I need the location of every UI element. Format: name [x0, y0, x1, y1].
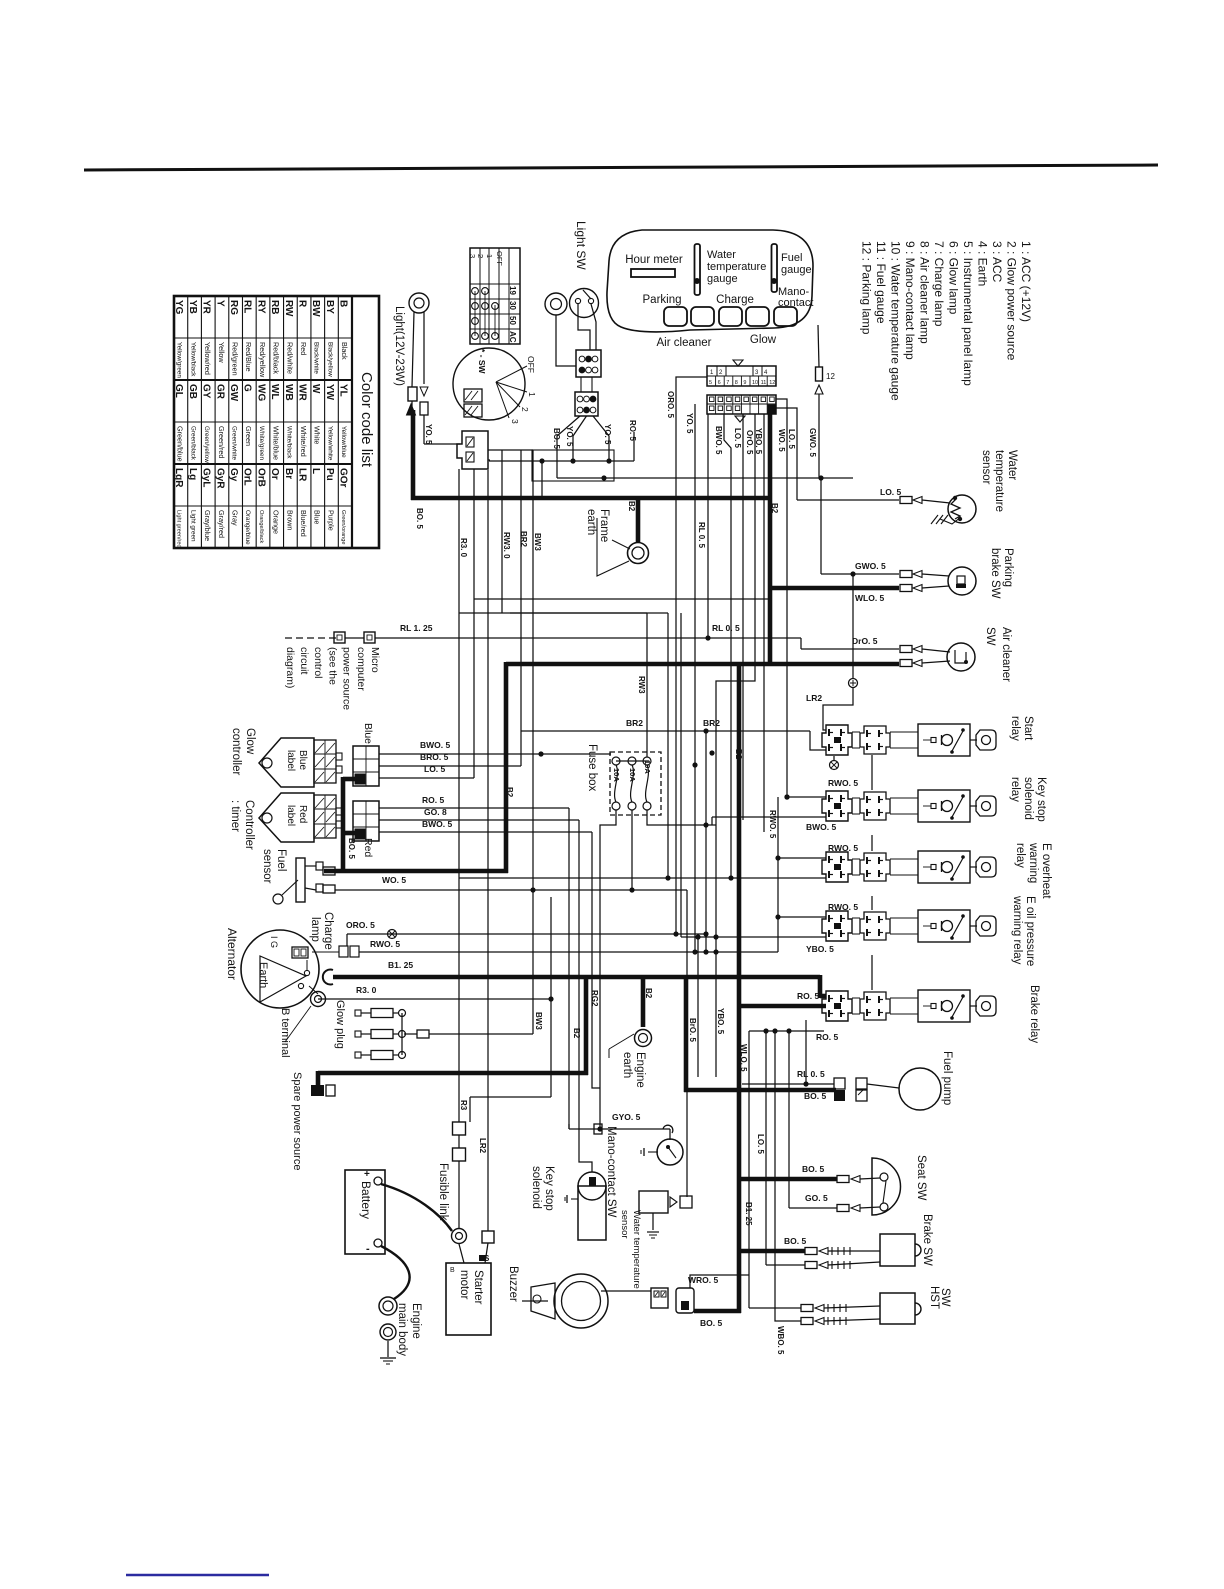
svg-text:White/green: White/green — [258, 426, 265, 460]
svg-text:I G: I G — [269, 936, 279, 948]
svg-text:2 : Glow power source: 2 : Glow power source — [1005, 241, 1019, 361]
svg-text:BWO. 5: BWO. 5 — [420, 740, 450, 750]
svg-text:motor: motor — [458, 1270, 470, 1300]
svg-text:GL: GL — [173, 384, 184, 398]
svg-text:Frame: Frame — [598, 509, 610, 542]
svg-text:Br: Br — [283, 468, 294, 479]
svg-text:R3. 0: R3. 0 — [459, 538, 468, 558]
svg-text:gauge: gauge — [781, 264, 812, 276]
svg-text:Light SW: Light SW — [574, 221, 588, 270]
svg-text:10: 10 — [752, 380, 758, 386]
svg-text:R3: R3 — [459, 1100, 468, 1111]
svg-text:GY: GY — [201, 384, 212, 399]
svg-text:YBO. 5: YBO. 5 — [806, 944, 834, 954]
svg-text:G: G — [242, 384, 253, 392]
svg-text:OrO. 5: OrO. 5 — [745, 430, 754, 455]
svg-text:Yellow/black: Yellow/black — [189, 342, 196, 377]
svg-text:RWO. 5: RWO. 5 — [828, 843, 858, 853]
svg-text:Seat SW: Seat SW — [915, 1155, 927, 1201]
svg-text:SW: SW — [984, 627, 996, 646]
svg-text:BWO. 5: BWO. 5 — [422, 819, 452, 829]
svg-text:AC: AC — [508, 331, 517, 343]
svg-text:E oil pressure: E oil pressure — [1024, 896, 1036, 966]
svg-text:WO. 5: WO. 5 — [777, 429, 786, 452]
svg-text:Orange: Orange — [272, 510, 281, 534]
svg-text:OrL: OrL — [242, 468, 253, 486]
svg-text:RWO. 5: RWO. 5 — [828, 902, 858, 912]
svg-text:relay: relay — [1009, 777, 1021, 802]
svg-text:GWO. 5: GWO. 5 — [855, 561, 886, 571]
svg-text:Engine: Engine — [634, 1052, 646, 1088]
svg-text:WLO. 5: WLO. 5 — [739, 1044, 748, 1072]
svg-text:BWO. 5: BWO. 5 — [714, 426, 723, 455]
svg-text:solenoid: solenoid — [530, 1166, 542, 1209]
svg-text:RWO. 5: RWO. 5 — [828, 778, 858, 788]
svg-text:Brake SW: Brake SW — [921, 1214, 933, 1266]
svg-text:sensor: sensor — [619, 1210, 630, 1239]
svg-text:controller: controller — [230, 728, 242, 775]
svg-text:LR2: LR2 — [806, 693, 822, 703]
svg-text:Blue: Blue — [362, 723, 374, 744]
svg-text:RO. 5: RO. 5 — [816, 1032, 838, 1042]
svg-text:Red/black: Red/black — [272, 342, 281, 374]
svg-text:BO. 5: BO. 5 — [804, 1091, 826, 1101]
svg-text:power source: power source — [341, 647, 353, 710]
svg-text:Battery: Battery — [359, 1181, 373, 1219]
svg-text:B: B — [338, 300, 349, 307]
svg-text:BO. 5: BO. 5 — [700, 1318, 722, 1328]
svg-text:10A: 10A — [628, 768, 637, 782]
svg-text:3: 3 — [510, 419, 520, 424]
svg-text:Color code list: Color code list — [358, 372, 375, 468]
svg-text:WG: WG — [255, 384, 266, 401]
svg-text:Mano-contact SW: Mano-contact SW — [605, 1126, 617, 1218]
svg-text:19: 19 — [508, 286, 517, 295]
svg-text:RL 0. 5: RL 0. 5 — [712, 623, 740, 633]
svg-text:2: 2 — [520, 407, 530, 412]
svg-text:9 : Mano-contact lamp: 9 : Mano-contact lamp — [903, 241, 917, 360]
svg-text:BRO. 5: BRO. 5 — [420, 752, 449, 762]
svg-text:Parking: Parking — [1002, 548, 1014, 587]
svg-text:Charge: Charge — [716, 294, 754, 306]
svg-text:OFF: OFF — [495, 251, 504, 266]
svg-text:gauge: gauge — [707, 273, 738, 285]
svg-text:WR: WR — [296, 384, 307, 401]
svg-text:8 : Air cleaner lamp: 8 : Air cleaner lamp — [918, 241, 932, 344]
svg-text:Or: Or — [269, 468, 280, 480]
svg-text:9: 9 — [743, 380, 746, 386]
svg-text:BO. 5: BO. 5 — [415, 508, 424, 529]
svg-text:12: 12 — [826, 372, 835, 381]
svg-text:Spare power source: Spare power source — [291, 1072, 303, 1170]
svg-text:RW3. 0: RW3. 0 — [502, 532, 511, 559]
svg-text:Lg: Lg — [187, 468, 198, 480]
svg-text:10A: 10A — [612, 768, 621, 782]
svg-text:SW: SW — [939, 1288, 951, 1307]
svg-text:Blue: Blue — [297, 750, 308, 770]
svg-text:GYO. 5: GYO. 5 — [612, 1112, 641, 1122]
svg-text:Water: Water — [1006, 450, 1018, 480]
svg-text:RO. 5: RO. 5 — [797, 991, 819, 1001]
svg-text:label: label — [285, 750, 296, 771]
svg-text:WLO. 5: WLO. 5 — [855, 593, 885, 603]
svg-text:GB: GB — [187, 384, 198, 399]
svg-text:12 : Parking lamp: 12 : Parking lamp — [860, 241, 874, 335]
svg-text:sensor: sensor — [980, 450, 992, 485]
svg-text:circuit: circuit — [298, 647, 310, 675]
svg-text:Glow: Glow — [750, 334, 777, 346]
svg-text:warning: warning — [1027, 842, 1039, 883]
svg-text:1: 1 — [527, 392, 537, 397]
svg-text:10A: 10A — [643, 760, 652, 774]
svg-text:Blue/red: Blue/red — [299, 510, 308, 537]
svg-text:Air cleaner: Air cleaner — [1000, 627, 1012, 682]
svg-text:White/blue: White/blue — [272, 426, 281, 460]
svg-text:B2: B2 — [572, 1028, 581, 1039]
svg-text:WRO. 5: WRO. 5 — [688, 1275, 718, 1285]
svg-text:4 : Earth: 4 : Earth — [976, 241, 990, 286]
svg-text:RW3: RW3 — [637, 676, 646, 694]
svg-text:control: control — [312, 647, 324, 679]
svg-text:* - SW: * - SW — [477, 349, 487, 375]
svg-text:(see the: (see the — [326, 647, 338, 685]
svg-text:BY: BY — [324, 300, 335, 314]
svg-text:1: 1 — [485, 254, 494, 258]
svg-text:RL 0. 5: RL 0. 5 — [797, 1069, 825, 1079]
svg-text:RWO. 5: RWO. 5 — [370, 939, 400, 949]
svg-text:GWO. 5: GWO. 5 — [808, 428, 817, 457]
svg-text:Orange/black: Orange/black — [258, 510, 264, 543]
svg-text:Light green/red: Light green/red — [176, 510, 182, 548]
svg-text:LR: LR — [296, 468, 307, 482]
svg-text:Glow plug: Glow plug — [334, 1000, 346, 1049]
svg-text:sensor: sensor — [261, 849, 273, 884]
svg-text:Water: Water — [707, 249, 736, 261]
svg-text:: timer: : timer — [229, 800, 241, 832]
svg-text:Light green: Light green — [189, 510, 196, 542]
svg-text:Controller: Controller — [243, 800, 255, 850]
svg-text:Green: Green — [244, 426, 253, 446]
svg-text:BR2: BR2 — [519, 531, 528, 548]
svg-text:B2: B2 — [505, 787, 514, 798]
svg-text:RG2: RG2 — [590, 990, 599, 1007]
svg-text:Water temperature: Water temperature — [631, 1210, 642, 1289]
svg-text:B: B — [450, 1267, 455, 1274]
svg-text:50: 50 — [508, 316, 517, 325]
svg-text:LR2: LR2 — [478, 1138, 487, 1154]
svg-text:Yellow/blue: Yellow/blue — [340, 426, 347, 458]
svg-text:GyL: GyL — [201, 468, 212, 487]
svg-text:BrO. 5: BrO. 5 — [688, 1018, 697, 1043]
svg-text:WO. 5: WO. 5 — [382, 875, 406, 885]
svg-text:B2: B2 — [627, 501, 636, 512]
svg-text:RO. 5: RO. 5 — [628, 420, 637, 441]
svg-text:Charge: Charge — [322, 912, 334, 950]
svg-text:LO. 5: LO. 5 — [880, 487, 902, 497]
svg-text:Start: Start — [1022, 716, 1034, 741]
svg-text:YO. 5: YO. 5 — [685, 413, 694, 434]
svg-text:Black/yellow: Black/yellow — [326, 342, 333, 377]
svg-text:Orange/blue: Orange/blue — [244, 510, 251, 545]
svg-text:1 : ACC (+12V): 1 : ACC (+12V) — [1019, 241, 1033, 322]
svg-text:OFF: OFF — [526, 356, 536, 373]
svg-text:RWO. 5: RWO. 5 — [768, 810, 777, 839]
svg-text:30: 30 — [508, 301, 517, 310]
svg-text:Air cleaner: Air cleaner — [657, 337, 712, 349]
svg-text:Engine: Engine — [410, 1303, 422, 1339]
svg-text:temperature: temperature — [707, 261, 766, 273]
svg-text:Green/orange: Green/orange — [340, 510, 346, 545]
svg-text:Glow: Glow — [244, 728, 256, 755]
svg-text:HST: HST — [928, 1286, 940, 1309]
svg-text:label: label — [285, 805, 296, 826]
svg-text:Green/blue: Green/blue — [176, 426, 185, 462]
svg-text:5 : Instrumental panel lamp: 5 : Instrumental panel lamp — [961, 241, 975, 386]
svg-text:WL: WL — [269, 384, 280, 400]
svg-text:Green/black: Green/black — [189, 426, 196, 461]
svg-text:Fuel pump: Fuel pump — [941, 1051, 953, 1105]
svg-text:Hour meter: Hour meter — [625, 254, 683, 266]
svg-text:BW: BW — [310, 300, 321, 317]
svg-text:Red/green: Red/green — [230, 342, 239, 376]
svg-text:GOr: GOr — [338, 468, 349, 488]
svg-text:warning relay: warning relay — [1011, 895, 1023, 965]
svg-text:YR: YR — [201, 300, 212, 315]
svg-text:+: + — [364, 1169, 370, 1180]
svg-text:YL: YL — [338, 384, 349, 397]
svg-text:BWO. 5: BWO. 5 — [806, 822, 836, 832]
svg-text:Buzzer: Buzzer — [507, 1266, 519, 1302]
svg-text:Parking: Parking — [643, 294, 682, 306]
svg-text:Y: Y — [214, 300, 225, 307]
svg-text:relay: relay — [1014, 843, 1026, 868]
svg-text:Green/white: Green/white — [230, 426, 237, 460]
svg-text:temperature: temperature — [993, 450, 1005, 512]
svg-text:computer: computer — [355, 647, 367, 691]
svg-text:Gy: Gy — [228, 468, 239, 482]
svg-text:Green/yellow: Green/yellow — [203, 426, 210, 463]
svg-text:RL: RL — [242, 300, 253, 313]
svg-text:2: 2 — [476, 254, 485, 258]
svg-text:Fuse box: Fuse box — [586, 744, 598, 792]
svg-text:Brown: Brown — [285, 510, 294, 530]
svg-text:LO. 5: LO. 5 — [787, 429, 796, 450]
svg-text:Yellow/red: Yellow/red — [203, 342, 212, 375]
svg-text:Key stop: Key stop — [543, 1166, 555, 1211]
svg-text:ORO. 5: ORO. 5 — [666, 391, 675, 419]
svg-text:BR2: BR2 — [703, 718, 720, 728]
svg-text:GO. 5: GO. 5 — [805, 1193, 828, 1203]
svg-text:WB: WB — [283, 384, 294, 401]
svg-text:White: White — [313, 426, 322, 444]
svg-text:Gray/blue: Gray/blue — [203, 510, 212, 541]
svg-text:OrB: OrB — [255, 468, 266, 487]
svg-text:7 : Charge lamp: 7 : Charge lamp — [932, 241, 946, 327]
svg-text:Brake relay: Brake relay — [1028, 985, 1040, 1043]
svg-text:LO. 5: LO. 5 — [756, 1134, 765, 1155]
svg-text:Fusible link: Fusible link — [437, 1163, 449, 1221]
svg-text:YB: YB — [187, 300, 198, 314]
svg-text:earth: earth — [585, 509, 597, 535]
svg-text:YO. 5: YO. 5 — [424, 424, 433, 445]
svg-text:12: 12 — [769, 380, 775, 386]
svg-text:Red: Red — [297, 805, 308, 823]
svg-text:Blue: Blue — [313, 510, 322, 524]
svg-text:Fuel: Fuel — [275, 849, 287, 871]
svg-text:YBO. 5: YBO. 5 — [716, 1008, 725, 1035]
svg-text:Yellow/green: Yellow/green — [176, 342, 183, 378]
svg-text:GW: GW — [228, 384, 239, 402]
svg-text:solenoid: solenoid — [1022, 777, 1034, 820]
svg-text:BW3: BW3 — [534, 1012, 543, 1030]
svg-text:5: 5 — [709, 380, 712, 386]
svg-text:RL 1. 25: RL 1. 25 — [400, 623, 433, 633]
svg-text:BR2: BR2 — [626, 718, 643, 728]
svg-text:Gray/red: Gray/red — [217, 510, 226, 538]
svg-text:LO. 5: LO. 5 — [424, 764, 446, 774]
svg-text:Earth: Earth — [257, 962, 269, 988]
svg-text:Light(12V-23W): Light(12V-23W) — [393, 306, 405, 386]
svg-text:RG: RG — [228, 300, 239, 315]
svg-text:11 : Fuel gauge: 11 : Fuel gauge — [874, 241, 888, 324]
svg-text:GR: GR — [214, 384, 225, 400]
svg-text:BO. 5: BO. 5 — [784, 1236, 806, 1246]
svg-text:L: L — [310, 468, 321, 474]
svg-text:6 : Glow lamp: 6 : Glow lamp — [947, 241, 961, 315]
svg-text:RW: RW — [283, 300, 294, 317]
svg-text:LgR: LgR — [173, 468, 184, 488]
svg-text:White/red: White/red — [299, 426, 308, 457]
svg-text:main body: main body — [396, 1303, 408, 1356]
svg-text:Black/white: Black/white — [313, 342, 320, 374]
svg-text:YBO. 5: YBO. 5 — [754, 428, 763, 455]
svg-text:RL 0. 5: RL 0. 5 — [697, 522, 706, 549]
svg-text:Green/red: Green/red — [217, 426, 226, 458]
svg-text:RO. 5: RO. 5 — [422, 795, 444, 805]
svg-text:YW: YW — [324, 384, 335, 401]
svg-text:LO. 5: LO. 5 — [733, 428, 742, 449]
svg-text:11: 11 — [761, 380, 767, 386]
svg-text:Black: Black — [340, 342, 349, 360]
svg-text:brake SW: brake SW — [989, 548, 1001, 599]
svg-text:3: 3 — [468, 254, 477, 258]
svg-text:DrO. 5: DrO. 5 — [852, 636, 878, 646]
svg-text:Alternator: Alternator — [225, 928, 239, 980]
svg-text:Yellow: Yellow — [217, 342, 226, 363]
svg-text:GyR: GyR — [214, 468, 225, 489]
svg-text:diagram): diagram) — [284, 647, 296, 688]
svg-text:B terminal: B terminal — [279, 1008, 291, 1058]
svg-text:Purple: Purple — [326, 510, 335, 531]
svg-text:R: R — [296, 300, 307, 308]
svg-text:R3. 0: R3. 0 — [356, 985, 377, 995]
svg-text:B1. 25: B1. 25 — [388, 960, 413, 970]
svg-text:Red/yellow: Red/yellow — [258, 342, 267, 378]
svg-text:earth: earth — [621, 1052, 633, 1078]
svg-text:ORO. 5: ORO. 5 — [346, 920, 375, 930]
svg-text:B2: B2 — [770, 503, 779, 514]
svg-text:Yellow/white: Yellow/white — [326, 426, 333, 461]
svg-text:Fuel: Fuel — [781, 252, 802, 264]
svg-text:lamp: lamp — [309, 917, 321, 942]
svg-text:Starter: Starter — [472, 1270, 484, 1305]
svg-text:relay: relay — [1009, 716, 1021, 741]
svg-text:BO. 5: BO. 5 — [802, 1164, 824, 1174]
svg-text:W: W — [310, 384, 321, 394]
svg-text:10 : Water temperature gauge: 10 : Water temperature gauge — [889, 241, 903, 401]
svg-text:7: 7 — [726, 380, 729, 386]
svg-text:Micro: Micro — [369, 647, 381, 673]
svg-text:RY: RY — [255, 300, 266, 314]
svg-text:GO. 8: GO. 8 — [424, 807, 447, 817]
svg-text:WBO. 5: WBO. 5 — [776, 1326, 785, 1355]
svg-text:Red: Red — [299, 342, 308, 355]
svg-text:Red/white: Red/white — [285, 342, 294, 374]
svg-text:Red/Blue: Red/Blue — [244, 342, 253, 372]
svg-text:Key stop: Key stop — [1035, 777, 1047, 822]
svg-text:8: 8 — [735, 380, 738, 386]
svg-text:Pu: Pu — [324, 468, 335, 481]
svg-text:B2: B2 — [644, 988, 653, 999]
svg-text:B2: B2 — [734, 749, 743, 760]
svg-text:Gray: Gray — [230, 510, 239, 526]
svg-text:White/black: White/black — [285, 426, 292, 459]
svg-text:RB: RB — [269, 300, 280, 314]
svg-text:YG: YG — [173, 300, 184, 315]
svg-text:3 : ACC: 3 : ACC — [990, 241, 1004, 283]
svg-text:-: - — [366, 1243, 370, 1255]
svg-text:BW3: BW3 — [533, 533, 542, 551]
svg-text:6: 6 — [718, 380, 721, 386]
svg-text:E overheat: E overheat — [1040, 843, 1052, 899]
